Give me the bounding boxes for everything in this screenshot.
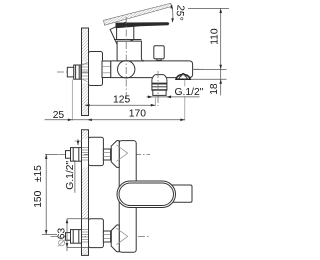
svg-text:25°: 25° xyxy=(173,4,186,21)
svg-text:170: 170 xyxy=(129,109,146,120)
svg-text:G.1/2": G.1/2" xyxy=(175,87,204,98)
svg-text:±15: ±15 xyxy=(33,165,44,182)
svg-text:125: 125 xyxy=(113,94,130,105)
svg-text:63: 63 xyxy=(57,228,68,240)
svg-text:110: 110 xyxy=(210,28,221,45)
svg-text:18: 18 xyxy=(209,83,220,95)
svg-text:150: 150 xyxy=(33,190,44,207)
svg-text:25: 25 xyxy=(53,110,65,121)
